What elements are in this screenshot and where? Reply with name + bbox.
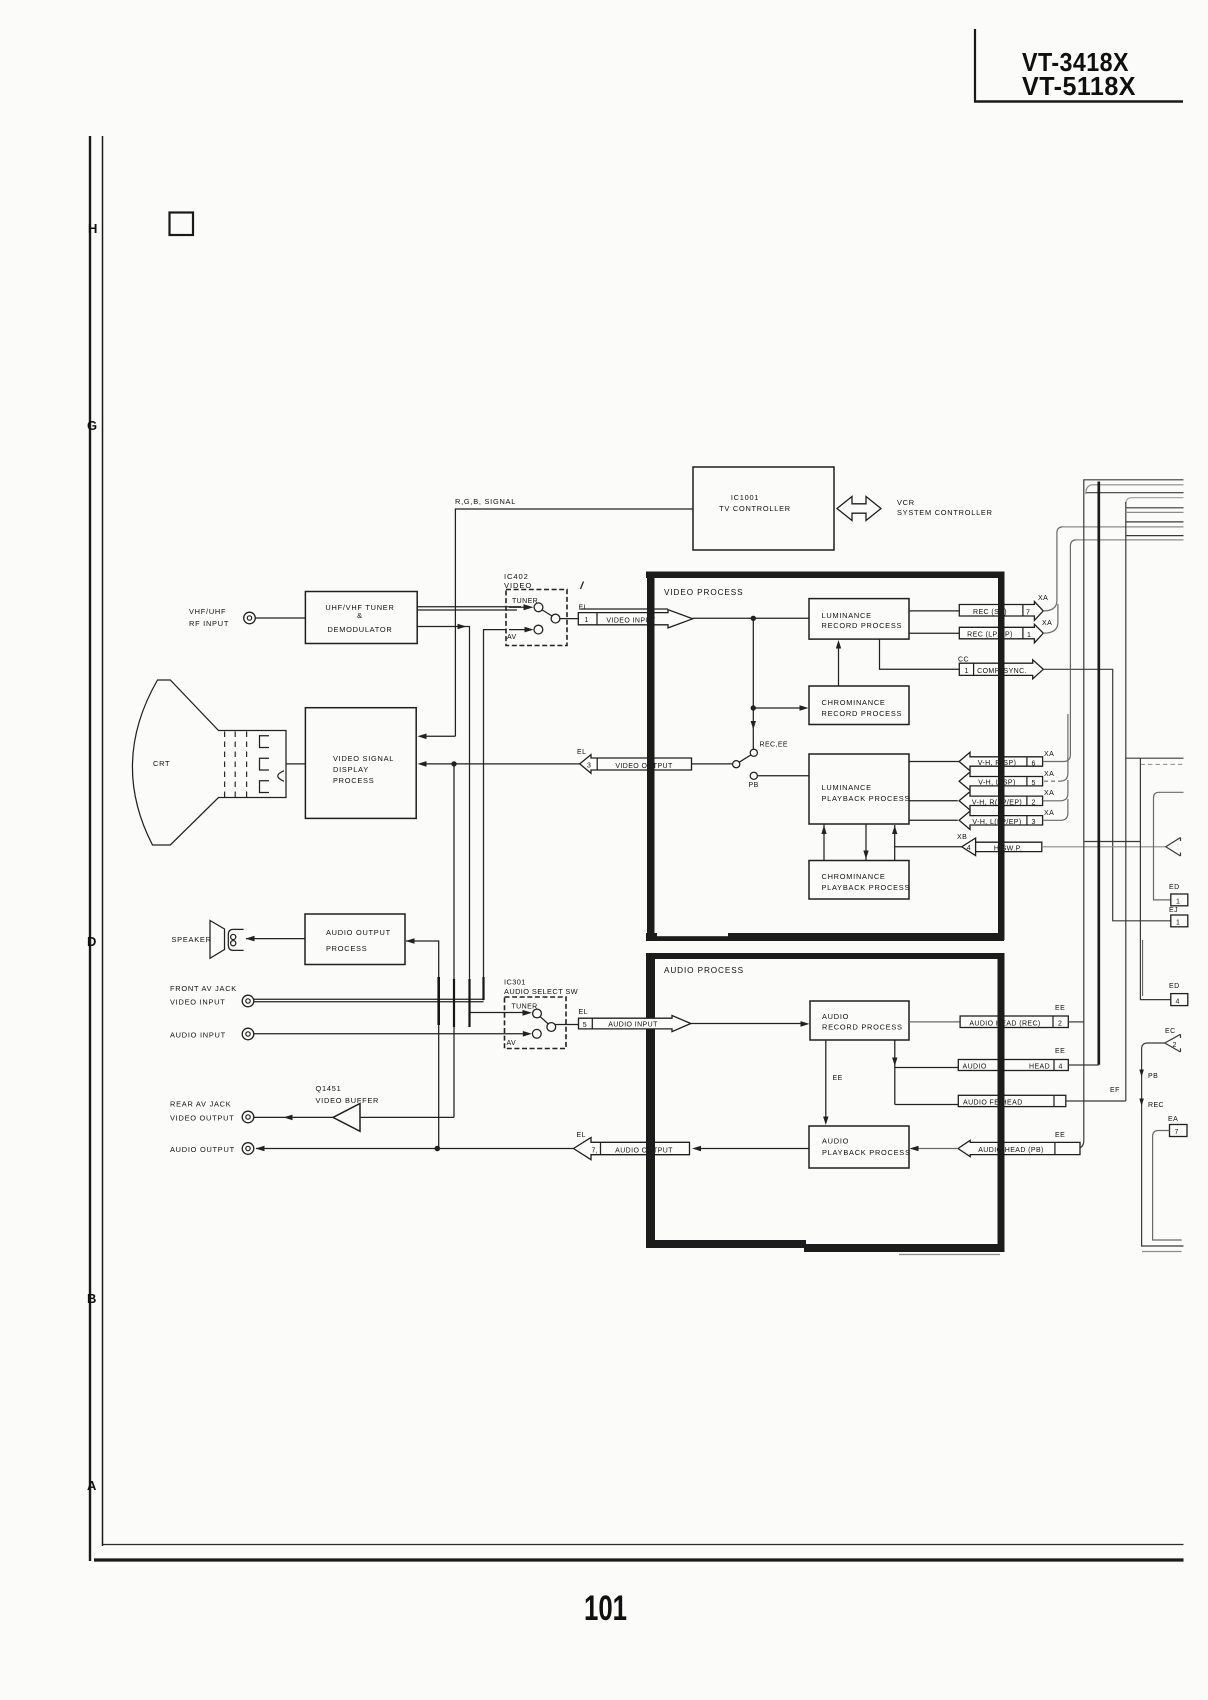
wire ED4 from drum box edge [1140,994,1170,1000]
wire video output line to display [425,763,580,765]
svg-text:VIDEO: VIDEO [504,581,532,590]
wire VH R SP to luminance playback [909,761,959,763]
svg-text:DISPLAY: DISPLAY [333,765,369,774]
svg-text:REC,EE: REC,EE [760,742,788,749]
svg-text:7: 7 [1175,1129,1179,1136]
svg-text:ED: ED [1169,983,1180,990]
cable connector V-H R(LP/EP) 2 [959,792,1043,810]
audio process border right overlay [998,953,1005,1252]
partial connector EC 2 [1165,1034,1181,1052]
arrowhead into IC402 tuner terminal [524,604,534,610]
svg-text:EE: EE [833,1075,843,1082]
CRT neck dashed line 1 [224,732,226,798]
arrowhead into audio output jack [256,1146,265,1152]
svg-text:1: 1 [965,668,969,675]
wire video input to luminance record [693,617,809,619]
audio record process box [810,1001,909,1040]
svg-text:REC: REC [1148,1102,1164,1109]
legend square [170,213,194,236]
svg-text:4: 4 [967,845,971,852]
drum box top edge [1126,757,1184,759]
grey bus line from v6 top [1126,498,1184,504]
svg-text:VCR: VCR [897,498,915,507]
left page border outer line [89,136,91,1561]
connector box AUDIO FE HEAD [958,1095,1066,1106]
svg-text:VIDEO OUTPUT: VIDEO OUTPUT [615,763,673,770]
wire bundle v4 thick [1097,482,1100,1065]
wire tuner audio out with mid arrow [417,627,524,1013]
CRT gun cathode C shape [278,771,284,781]
video signal display process box [305,708,416,819]
wire comp sync drop [880,639,960,669]
svg-text:1: 1 [1176,920,1180,927]
arrowhead AV terminal IC402 [525,627,534,633]
svg-text:V-H, R(SP): V-H, R(SP) [978,760,1017,767]
stray wire segment above hswp [1085,841,1141,843]
svg-text:5: 5 [1032,780,1036,787]
svg-text:IC402: IC402 [504,572,529,581]
svg-text:CHROMINANCE: CHROMINANCE [822,872,886,881]
svg-text:EE: EE [1055,1005,1065,1012]
svg-text:AUDIO: AUDIO [822,1137,849,1146]
svg-text:FRONT AV JACK: FRONT AV JACK [170,984,237,993]
wire chroma pb link right [894,847,896,861]
svg-text:XA: XA [1044,810,1054,817]
svg-text:VT-5118X: VT-5118X [1022,71,1136,101]
svg-text:LUMINANCE: LUMINANCE [822,783,872,792]
wire audio fe head to bundle [1066,1100,1126,1102]
svg-text:IC1001: IC1001 [731,493,759,502]
wire stub into display box with arrow [425,735,455,737]
grey bus line top2 [1086,485,1184,494]
video process border right [998,572,1005,941]
wire hswp left to luminance playback [895,846,962,848]
arrowhead to speaker [246,936,255,942]
wire chroma pb link left arrow up [823,824,825,861]
CRT neck dashed line 2 [234,732,236,798]
switch blade IC301 [540,1017,548,1024]
wire video node vertical [752,618,754,749]
tick mark above EL [581,582,584,590]
svg-text:XA: XA [1042,620,1052,627]
cable connector V-H L(SP) 5 [959,772,1043,790]
svg-text:AUDIO OUTPUT: AUDIO OUTPUT [170,1145,235,1154]
wire bundle v6 [1125,502,1127,1101]
svg-text:1: 1 [1176,899,1180,906]
svg-text:VIDEO OUTPUT: VIDEO OUTPUT [170,1114,234,1123]
wire audio input to record process [691,1023,801,1025]
audio output process box [305,914,405,965]
wire playback out to audio output connector [701,1148,809,1150]
wire audio head 4 to bundle [1068,1064,1099,1066]
common pole circle IC301 [547,1023,556,1032]
arrowhead up hswp [892,826,897,835]
svg-text:CHROMINANCE: CHROMINANCE [822,698,886,707]
svg-text:VIDEO BUFFER: VIDEO BUFFER [316,1096,380,1105]
wire front video double line lower [254,1001,484,1003]
svg-text:3: 3 [1032,819,1036,826]
arrowhead down EE into playback [823,1117,828,1126]
wire record to audio head rec [909,1021,960,1023]
RF input jack [244,612,256,624]
svg-text:EL: EL [577,1132,586,1139]
svg-text:R,G,B, SIGNAL: R,G,B, SIGNAL [455,497,516,506]
video process border bottom [646,933,1004,941]
luminance playback process box [809,754,909,824]
svg-text:XB: XB [957,834,967,841]
bus branch line y521 [1126,521,1184,523]
connector box ED 1 [1171,894,1188,906]
wire VH L LP to luminance playback [909,819,958,821]
cable connector V-H L(LP/EP) 3 [959,811,1043,829]
svg-text:6: 6 [1032,760,1036,767]
wire into audio output process [406,941,439,1149]
svg-text:101: 101 [584,1589,627,1628]
wire EA7 down to bottom [1153,1131,1182,1241]
arrowhead into audio record [801,1021,810,1027]
wire ED1 connector from inner corner [1154,792,1184,900]
speaker coil loop 1 [231,934,236,939]
svg-text:LUMINANCE: LUMINANCE [822,611,872,620]
arrowhead into audio output process [406,938,415,944]
wire luminance record REC LP out [909,632,959,634]
wire vh3 curve up [1043,799,1068,820]
connector box AUDIO HEAD (REC) 2 [960,1016,1068,1028]
footer border thick line [94,1558,1184,1561]
connector box EJ 1 [1171,915,1188,927]
wire VH R LP to luminance playback [909,800,958,802]
drum box left edge double segment [1142,940,1144,996]
svg-text:VIDEO PROCESS: VIDEO PROCESS [664,588,744,597]
svg-text:XA: XA [1044,771,1054,778]
chrominance record process box [809,686,909,725]
arrow to AV terminal IC301 [506,1033,524,1035]
cable connector 1 VIDEO INPUT [578,610,692,628]
video process border right overlay [998,572,1005,941]
svg-text:XA: XA [1038,595,1048,602]
cable connector REC (LP/EP) 1 [959,624,1043,643]
svg-text:PB: PB [1148,1073,1158,1080]
wire tuner video out double line upper [417,606,521,608]
svg-text:AUDIO INPUT: AUDIO INPUT [608,1022,658,1029]
switch pole circle [733,761,740,768]
rear video output jack [242,1111,254,1123]
svg-text:PROCESS: PROCESS [333,776,374,785]
arrowhead down head drive [892,1058,897,1067]
drum box left edge [1139,758,1141,994]
wire hswp into luminance playback bottom [894,825,896,847]
svg-text:EE: EE [1055,1048,1065,1055]
svg-text:AUDIO SELECT SW: AUDIO SELECT SW [504,987,578,996]
connector box EA 7 [1170,1125,1188,1137]
svg-text:B: B [87,1291,96,1306]
cable connector REC (SP) 7 [959,602,1043,621]
svg-text:3: 3 [587,763,591,770]
wire comp sync branch up [1070,540,1076,669]
arrowhead into display box top input [418,734,427,740]
svg-text:AUDIO HEAD (PB): AUDIO HEAD (PB) [978,1147,1044,1154]
wire record to playback EE [825,1040,827,1117]
drum box top edge dashed grey [1140,763,1183,765]
svg-text:XA: XA [1044,751,1054,758]
front video input jack [242,995,254,1007]
svg-text:D: D [87,934,96,949]
svg-text:EF: EF [1110,1087,1120,1094]
svg-text:PLAYBACK PROCESS: PLAYBACK PROCESS [822,1148,911,1157]
IC1001 TV controller box [693,467,834,550]
svg-text:PLAYBACK PROCESS: PLAYBACK PROCESS [822,794,911,803]
junction dot video input node [751,616,756,621]
wire front video double line upper [254,998,484,1000]
wire vh6 curve up [1043,670,1071,762]
svg-text:AUDIO HEAD (REC): AUDIO HEAD (REC) [969,1020,1040,1027]
svg-text:TUNER: TUNER [512,598,538,605]
wire comp sync to EJ connector [1043,669,1171,921]
video process border top [646,572,1004,579]
svg-text:4: 4 [1059,1064,1063,1071]
svg-text:EJ: EJ [1169,907,1178,914]
svg-text:EE: EE [1055,1132,1065,1139]
video process border left overlay [647,572,655,941]
tuner terminal circle IC301 [533,1009,542,1018]
svg-text:EL: EL [577,749,586,756]
wire audio head rec to bundle [1068,1021,1084,1023]
svg-text:REAR AV JACK: REAR AV JACK [170,1100,231,1109]
svg-text:EC: EC [1165,1028,1176,1035]
svg-text:PLAYBACK PROCESS: PLAYBACK PROCESS [822,883,911,892]
arrow to tuner terminal inside IC402 [509,606,526,608]
PB switch contact circle [750,772,757,779]
svg-text:EA: EA [1168,1116,1178,1123]
svg-text:ED: ED [1169,884,1180,891]
svg-text:TV CONTROLLER: TV CONTROLLER [719,504,791,513]
wire audio out process to speaker [246,938,305,940]
audio process border left overlay at audio output row [646,1138,655,1162]
cable connector 5 AUDIO INPUT [579,1016,691,1032]
IC301 dashed switch box [505,997,567,1049]
video process border left [647,572,655,940]
svg-text:PB: PB [749,782,759,789]
wire chroma pb link middle arrow down [865,824,867,861]
cable connector 3 VIDEO OUTPUT [580,755,692,774]
svg-text:2: 2 [1058,1021,1062,1028]
wire vh2 curve up [1043,780,1068,801]
grey bus line comp sync [1076,539,1184,541]
svg-text:A: A [87,1478,97,1493]
svg-text:SPEAKER: SPEAKER [172,935,212,944]
wire RF jack to tuner [256,617,306,619]
wire RGB signal from TV controller to display process [455,509,693,736]
AV terminal circle IC301 [532,1029,541,1038]
svg-text:AUDIO PROCESS: AUDIO PROCESS [664,966,744,975]
wire front audio to IC301 AV [254,1033,506,1035]
CRT gun bracket bottom [260,781,270,793]
crossing tick marks on vertical wires [437,977,440,1025]
arrowhead up into luminance record [836,640,841,649]
wire IC301 common to audio input connector [555,1024,578,1026]
footer border thin line [102,1544,1184,1546]
switch blade [739,755,751,762]
AV terminal circle IC402 [534,625,543,634]
svg-text:AUDIO FE HEAD: AUDIO FE HEAD [963,1100,1023,1107]
wire vh5 curve up [1060,714,1068,781]
svg-text:7: 7 [1026,610,1030,617]
audio process border left [646,953,655,1248]
left page border inner line [102,136,104,1546]
svg-text:V-H, L(SP): V-H, L(SP) [978,780,1015,787]
wire bundle v3 top corner to audio head pb [1076,480,1184,1149]
connector box AUDIO HEAD 4 [958,1060,1068,1071]
arrowhead mid wire tuner audio [458,624,467,630]
svg-text:AUDIO OUTPUT: AUDIO OUTPUT [326,928,391,937]
svg-text:7,: 7, [592,1148,599,1155]
audio process border top [648,953,1004,959]
svg-text:RF INPUT: RF INPUT [189,619,229,628]
svg-text:AV: AV [507,634,517,641]
wire video input connector outer top edge [580,608,668,610]
audio process border bottom left segment [646,1240,806,1248]
arrowhead into audio output connector [692,1146,701,1152]
arrowhead into display box mid input [418,761,427,767]
audio playback process box [809,1126,909,1168]
svg-text:1: 1 [585,617,589,624]
svg-text:5: 5 [583,1022,587,1029]
svg-text:TUNER: TUNER [512,1004,538,1011]
arrowhead up chroma link [821,826,826,835]
wire rec lp curve up [1043,604,1058,633]
front audio input jack [242,1028,254,1040]
wire tuner video out double line lower [417,609,517,611]
svg-text:RECORD PROCESS: RECORD PROCESS [822,1023,903,1032]
audio process border bottom grey edge [899,1254,1000,1256]
svg-text:V-H, R(LP/EP): V-H, R(LP/EP) [972,799,1022,806]
cable connector V-H R(SP) 6 [959,752,1043,770]
arrow to AV terminal inside IC402 [509,629,526,631]
junction dot video output branch [451,761,456,766]
bidirectional arrow to VCR system controller [837,497,881,521]
junction dot chroma branch [751,705,756,710]
arrowhead into chrominance record [800,705,809,711]
bus branch line y535 [1126,535,1184,537]
arrowhead on video out wire [284,1115,293,1121]
switch blade IC402 [542,610,552,616]
svg-text:AUDIO: AUDIO [822,1012,849,1021]
svg-text:EL: EL [579,1009,588,1016]
wire rec sp up to edge [1043,527,1063,611]
svg-text:RECORD PROCESS: RECORD PROCESS [822,709,903,718]
svg-text:VHF/UHF: VHF/UHF [189,607,226,616]
header model number block border horizontal [974,100,1183,103]
header model number block border vertical [974,29,976,102]
arrowhead down to record switch [751,721,756,730]
svg-text:CRT: CRT [153,759,170,768]
connector box ED 4 [1171,994,1188,1006]
UHF/VHF tuner and demodulator box [305,592,417,644]
transistor Q1451 buffer triangle [333,1104,360,1132]
cable connector 4 H.SW.P. [962,838,1042,856]
cable connector 1 COMP. SYNC. [959,660,1043,679]
REC,EE switch contact circle [750,749,757,756]
svg-text:RECORD PROCESS: RECORD PROCESS [822,621,903,630]
svg-text:AUDIO INPUT: AUDIO INPUT [170,1031,226,1040]
wire video output connector to pole [692,763,733,765]
CRT bell outline [132,680,286,845]
arrowhead down chroma link [863,851,868,860]
svg-text:SYSTEM CONTROLLER: SYSTEM CONTROLLER [897,508,993,517]
drum box bottom grey double [1142,1251,1182,1253]
wire PB contact to luminance playback [757,775,809,777]
partial arrow at page edge hswp [1166,838,1181,857]
bus branch grey y512 [1126,511,1184,513]
wire audio output to jack [256,1148,574,1150]
junction dot audio output branch [435,1146,441,1152]
svg-text:HEAD: HEAD [1029,1063,1050,1070]
svg-text:VIDEO SIGNAL: VIDEO SIGNAL [333,754,394,763]
luminance record process box [809,599,909,640]
svg-text:DEMODULATOR: DEMODULATOR [327,625,392,634]
svg-text:V-H, L(LP/EP): V-H, L(LP/EP) [972,819,1021,826]
wire IC402 common to video input connector [560,618,578,620]
wire vh5 dashed [1044,780,1060,782]
wire audio head pb to playback [918,1148,958,1150]
svg-text:2: 2 [1032,800,1036,807]
speaker bracket [228,929,243,950]
svg-text:2: 2 [1173,1042,1177,1049]
wire video down to rear buffer [453,764,455,1118]
svg-text:Q1451: Q1451 [316,1084,342,1093]
wire EC2 down to drum bottom [1142,1043,1184,1246]
wire front video into IC402 AV [484,630,507,1001]
svg-text:REC (LP/EP): REC (LP/EP) [967,632,1013,639]
cable connector 7 AUDIO OUTPUT [574,1138,690,1160]
svg-text:H: H [88,221,97,236]
arrowhead AV terminal IC301 [523,1031,532,1037]
rear audio output jack [242,1143,254,1155]
wire chrominance to luminance record arrow [838,645,840,686]
bus line top3 [1087,492,1184,494]
chrominance playback process box [809,861,909,900]
wire buffer input from video branch [360,1116,454,1118]
wire buffer to video jack [254,1116,333,1118]
PB mode arrow [1139,1070,1144,1078]
tuner terminal circle IC402 [534,603,543,612]
REC mode arrow [1139,1099,1144,1107]
common pole circle IC402 [551,614,560,623]
svg-text:AV: AV [507,1040,517,1047]
grey bus line rec sp [1062,526,1184,528]
wire record to heads drop [895,1040,959,1105]
connector AUDIO HEAD (PB) left arrow [958,1140,1080,1156]
speaker coil loop 2 [231,941,236,946]
svg-text:&: & [357,611,363,620]
svg-text:VIDEO INPUT: VIDEO INPUT [170,998,225,1007]
svg-text:IC301: IC301 [504,978,526,987]
svg-text:PROCESS: PROCESS [326,944,367,953]
arrowhead into IC301 tuner terminal [523,1010,533,1016]
svg-text:AUDIO: AUDIO [963,1063,987,1070]
wire CRT to display process [286,763,305,765]
IC402 dashed switch box [506,590,567,646]
bus branch line y507 [1126,507,1184,509]
video process border bottom notch [657,933,728,937]
svg-text:CC: CC [958,657,969,664]
CRT gun bracket top [260,736,270,748]
svg-text:G: G [87,418,97,433]
svg-text:4: 4 [1176,998,1180,1005]
wire luminance record REC SP out [909,610,959,612]
wire node to chrominance record [753,707,801,709]
CRT gun bracket middle [260,758,270,770]
